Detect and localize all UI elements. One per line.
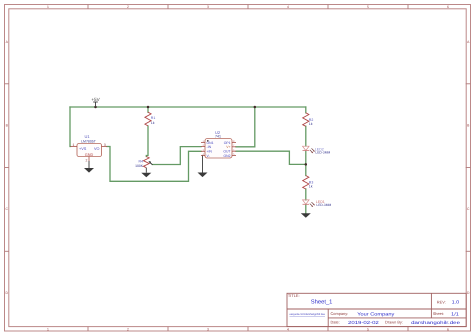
svg-text:4: 4: [287, 327, 289, 331]
svg-text:741: 741: [215, 134, 221, 138]
svg-text:REV:: REV:: [437, 300, 446, 305]
svg-text:3: 3: [207, 327, 209, 331]
svg-text:V-: V-: [207, 154, 210, 158]
svg-text:LED-3MM: LED-3MM: [316, 203, 331, 207]
svg-text:1k: 1k: [309, 122, 313, 126]
svg-text:2019-02-02: 2019-02-02: [348, 320, 379, 325]
svg-text:Your Company: Your Company: [357, 311, 395, 316]
svg-text:VO: VO: [94, 147, 100, 151]
svg-text:3: 3: [104, 143, 106, 147]
svg-text:4: 4: [287, 5, 289, 9]
svg-text:+VS: +VS: [79, 147, 87, 151]
svg-text:-IN: -IN: [207, 145, 212, 149]
svg-text:R1: R1: [151, 116, 156, 120]
svg-text:1/1: 1/1: [451, 311, 459, 316]
svg-text:5: 5: [367, 327, 369, 331]
svg-text:1: 1: [73, 143, 75, 147]
svg-text:GND: GND: [85, 153, 94, 157]
svg-text:R4: R4: [139, 159, 144, 163]
svg-text:3: 3: [207, 5, 209, 9]
svg-text:100K: 100K: [135, 164, 144, 168]
svg-text:ON2: ON2: [224, 154, 231, 158]
svg-text:Sheet:: Sheet:: [433, 311, 444, 316]
svg-text:Sheet_1: Sheet_1: [311, 299, 333, 306]
svg-text:2: 2: [86, 159, 88, 163]
svg-text:1: 1: [47, 327, 49, 331]
svg-text:+5V: +5V: [91, 97, 100, 102]
svg-text:Drawn By:: Drawn By:: [385, 320, 403, 325]
svg-text:1k: 1k: [151, 121, 155, 125]
svg-text:easyeda.com/darshangohilr.dee: easyeda.com/darshangohilr.dee: [290, 312, 326, 316]
svg-text:LM7805T: LM7805T: [81, 139, 97, 143]
svg-text:V+: V+: [226, 145, 230, 149]
svg-text:2: 2: [127, 327, 129, 331]
svg-text:5: 5: [367, 5, 369, 9]
svg-text:6: 6: [447, 327, 449, 331]
svg-text:2: 2: [127, 5, 129, 9]
svg-text:TITLE:: TITLE:: [288, 293, 300, 298]
svg-text:1.0: 1.0: [452, 300, 460, 305]
svg-text:1: 1: [47, 5, 49, 9]
svg-text:darshangohilr.dee: darshangohilr.dee: [411, 320, 461, 325]
svg-text:6: 6: [447, 5, 449, 9]
svg-text:Company:: Company:: [331, 311, 349, 316]
svg-text:U1: U1: [84, 134, 90, 139]
svg-text:LED-3MM: LED-3MM: [315, 150, 330, 154]
svg-text:Date:: Date:: [331, 320, 340, 325]
svg-text:1k: 1k: [309, 184, 313, 188]
